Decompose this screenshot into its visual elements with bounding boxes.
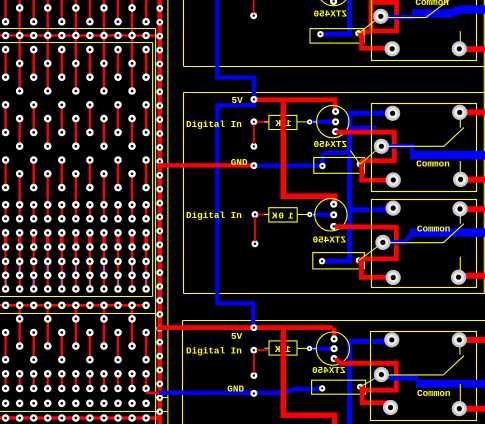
module B channel2 via xyxy=(307,212,312,217)
svg-text:K: K xyxy=(271,210,277,221)
svg-text:ZTX450: ZTX450 xyxy=(313,139,347,150)
relay K2 NC contact wire (red stub) xyxy=(465,273,485,279)
module C 5V pad xyxy=(250,324,257,331)
module B channel1 jumper pad L xyxy=(319,163,325,169)
wire V+ rail over GND crossing (module C) xyxy=(280,386,286,399)
relay KC pad ML (pole) xyxy=(374,367,389,382)
relay K0 pad BR xyxy=(452,41,467,56)
protoboard bottom bus row wire xyxy=(0,304,148,307)
module A spare pad wire (red) xyxy=(253,0,255,13)
relay KC pole output wire (blue) xyxy=(387,376,419,379)
relay K1 NC contact wire (red stub) xyxy=(466,177,485,183)
module B channel2 transistor pads (C,B,E) xyxy=(330,201,337,230)
module B channel2 spare pad xyxy=(252,240,259,247)
relay KC NO contact wire (red stub) xyxy=(466,337,485,343)
relay K1 pad TR xyxy=(452,105,467,120)
module C jumper-to-relay silk diagonal xyxy=(360,375,381,387)
module B channel1 jumper JP1 outline xyxy=(314,158,365,174)
svg-text:5V: 5V xyxy=(232,95,244,106)
module B channel1 pad (spare) xyxy=(250,143,257,150)
module C V+ rail wire (red vertical x=283.3) xyxy=(283,328,334,424)
module A emitter wire (red ring) xyxy=(362,0,397,34)
svg-text:GND: GND xyxy=(227,383,244,394)
header strip spine wire (red, vertical) xyxy=(157,0,162,424)
header strip pad column xyxy=(156,5,163,415)
svg-text:1: 1 xyxy=(285,118,291,129)
relay K2 pole output wire (blue) xyxy=(388,240,406,245)
relay K2 pad ML (pole) xyxy=(375,235,390,250)
module C GND wire (blue) xyxy=(159,389,320,393)
relay K1 NO contact wire (red stub) xyxy=(466,109,485,115)
relay K1 pad ML (pole) xyxy=(374,139,389,154)
wire V+ rail over resistor (module C) xyxy=(280,340,286,356)
module B 5V wire (red) xyxy=(255,100,336,110)
module C spare pad wire (red) xyxy=(253,353,255,373)
module C spare pad xyxy=(250,372,257,379)
module C transistor pads (C,B,E) xyxy=(331,335,338,362)
relay K1 pad BR xyxy=(453,172,468,187)
relay K2 outline (module B channel2) xyxy=(372,200,477,288)
svg-text:GND: GND xyxy=(231,157,248,168)
relay K0 NC contact wire (red stub) xyxy=(465,46,485,52)
module B channel2 jumper-to-relay silk diagonal xyxy=(359,243,382,260)
relay K2 silk pole and lever xyxy=(384,212,464,272)
module B channel2 spare pad wire (red) xyxy=(254,217,256,242)
svg-text:5V: 5V xyxy=(231,331,243,342)
relay KC silk pole and lever xyxy=(385,343,465,404)
module C jumper pad R xyxy=(357,384,363,390)
relay KC pad BL xyxy=(383,400,398,415)
relay KC pad BR xyxy=(452,401,467,416)
svg-text:Common: Common xyxy=(416,159,450,170)
relay K2 NO contact wire (red stub) xyxy=(466,206,485,212)
module B channel1 emitter wire (red ring) xyxy=(337,132,395,164)
module B channel1 jumper-to-relay coil wire (red) xyxy=(360,165,391,180)
svg-text:ZTX450: ZTX450 xyxy=(312,365,346,376)
relay K0 silk pole and lever xyxy=(384,0,460,45)
wire V+ rail over GND crossing xyxy=(280,159,286,172)
module A jumper-to-relay coil wire (red) xyxy=(359,34,390,48)
relay KC pad TR xyxy=(452,332,467,347)
relay K2 pad BL xyxy=(386,270,401,285)
protoboard vertical strip wires (red pair traces, upper section) xyxy=(6,0,147,360)
module B channel1 via xyxy=(307,119,312,124)
module B channel2 jumper-to-relay coil wire (red) xyxy=(360,261,392,277)
module B channel2 Digital In pad xyxy=(252,211,259,218)
module B channel2 resistor R 10K xyxy=(264,208,297,222)
module B channel2 base wire (blue) xyxy=(312,213,330,217)
module C resistor R 1K xyxy=(264,341,297,355)
wire GND rail blue (x=349.5) xyxy=(323,0,388,424)
module B V+ rail wire (red vertical x=283.3) xyxy=(283,100,334,203)
svg-text:1: 1 xyxy=(285,344,291,355)
adjacent board edge at right margin xyxy=(483,0,485,294)
module C base wire (blue) xyxy=(312,347,332,351)
module C resistor-to-via silk link xyxy=(297,347,307,349)
protoboard bottom edge bus row wire xyxy=(0,416,161,419)
svg-text:Common: Common xyxy=(417,388,451,399)
svg-text:ZTX450: ZTX450 xyxy=(312,235,346,246)
relay KC outline (module C, clipped) xyxy=(371,332,477,421)
module C jumper pad L xyxy=(319,385,325,391)
wire V+ rail over resistor (module B) xyxy=(280,115,286,131)
relay KC NC contact wire (red stub) xyxy=(466,406,485,412)
svg-text:Digital In: Digital In xyxy=(186,346,242,357)
relay K2 pad TR xyxy=(452,201,467,216)
module B outline (middle board) xyxy=(184,93,485,294)
module B channel1 resistor R 1K xyxy=(264,115,297,129)
protoboard dense-zone strip wires xyxy=(6,205,147,389)
module C 5V wire (red) xyxy=(157,328,334,337)
module A outline (top board) xyxy=(184,0,485,67)
module B channel2 jumper pad R xyxy=(356,257,362,263)
svg-text:1: 1 xyxy=(288,210,294,221)
module B channel2 resistor-to-via silk link xyxy=(297,214,307,216)
relay K1 pad TL xyxy=(385,106,400,121)
module C GND pad xyxy=(250,390,257,397)
module B GND wire from header (red) xyxy=(157,163,252,167)
module B channel2 emitter wire (red ring) xyxy=(335,227,396,261)
module B channel1 spare pad wire (red) xyxy=(253,125,255,145)
module B channel2 jumper JP2 outline xyxy=(313,253,365,269)
module B channel1 base wire (blue) xyxy=(312,120,332,124)
module C jumper JP outline xyxy=(312,380,366,394)
module B channel2 Digital In wire (red) xyxy=(258,214,268,216)
module A jumper JP outline xyxy=(310,29,364,43)
module B 5V pad xyxy=(250,96,257,103)
relay K1 silk pole and lever xyxy=(385,116,464,176)
module A jumper pad R xyxy=(355,30,361,36)
svg-text:0: 0 xyxy=(278,210,284,221)
relay K0 pole output wire (blue) xyxy=(386,15,414,20)
relay K1 pad BL xyxy=(386,172,401,187)
module B channel1 Digital In pad xyxy=(250,118,257,125)
svg-text:ZTX450: ZTX450 xyxy=(313,9,347,20)
svg-text:K: K xyxy=(275,118,281,129)
relay KC pad TL xyxy=(384,332,399,347)
module B channel1 Digital In wire (red) xyxy=(257,121,268,123)
module C outline (bottom board) xyxy=(183,321,485,424)
module B channel2 jumper pad L xyxy=(319,258,325,264)
protoboard top bus row wire xyxy=(0,34,160,37)
relay K2 pad BR xyxy=(451,270,466,285)
module C via xyxy=(307,346,312,351)
module C Digital In wire (red) xyxy=(257,349,268,351)
module A transistor Q ZTX450 outline (clipped) xyxy=(317,0,349,6)
module C Digital In pad xyxy=(250,347,257,354)
relay K1 outline (module B channel1) xyxy=(372,104,477,192)
protoboard outline yellow box (lower) xyxy=(0,297,156,314)
module B channel2 transistor Q2 ZTX450 outline xyxy=(313,199,347,231)
module C jumper-to-relay coil wire (red) xyxy=(361,388,391,406)
module B channel1 transistor Q1 ZTX450 outline xyxy=(313,105,349,137)
relay K0 outline (module A, clipped) xyxy=(372,0,477,61)
module C transistor Q ZTX450 outline xyxy=(312,332,349,365)
svg-text:K: K xyxy=(274,344,280,355)
module A jumper pad L xyxy=(317,31,323,37)
module B channel1 resistor-to-via silk link xyxy=(297,121,307,123)
module A transistor emitter pad xyxy=(330,0,337,5)
module B GND wire to jumper (blue) xyxy=(257,163,321,167)
svg-text:Digital In: Digital In xyxy=(186,119,242,130)
module A spare pad xyxy=(250,12,257,19)
relay K0 pad BL xyxy=(385,41,400,56)
relay K0 pad ML (pole) xyxy=(373,9,388,24)
protoboard outline yellow box (upper) xyxy=(0,29,156,43)
svg-text:Common: Common xyxy=(417,223,451,234)
module B GND pad xyxy=(250,162,257,169)
protoboard right edge yellow outlines xyxy=(0,0,168,424)
module B channel1 jumper-to-relay silk diagonals xyxy=(350,147,380,165)
module B channel1 jumper pad R xyxy=(357,161,363,167)
svg-text:Digital In: Digital In xyxy=(186,210,242,221)
relay K2 pad TL xyxy=(386,201,401,216)
module C emitter wire (red ring) xyxy=(336,359,397,390)
protoboard pad grid xyxy=(2,4,150,422)
wire 5V rail blue (left, feeds 5V pads) xyxy=(217,0,254,325)
relay K1 pole output wire (blue) xyxy=(387,144,414,149)
module C GND wire stub from grid (red) xyxy=(146,391,159,394)
module A jumper-to-relay silk diagonal xyxy=(358,17,380,34)
module B channel1 transistor pads (C,B,E) xyxy=(332,108,339,135)
